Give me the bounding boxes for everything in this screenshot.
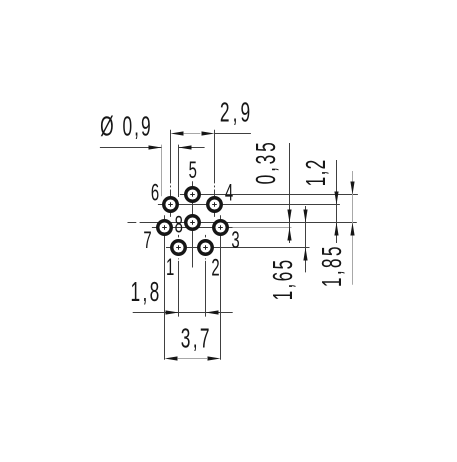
centre line: pin 5/8 vertical axis xyxy=(192,181,194,267)
dimension line 2,9 xyxy=(184,133,201,135)
svg-text:5: 5 xyxy=(189,157,197,183)
svg-text:1,65: 1,65 xyxy=(267,260,298,301)
pin 1 contact hole xyxy=(172,241,186,255)
extension line: pin 7 column xyxy=(164,215,166,360)
svg-text:8: 8 xyxy=(175,212,183,238)
dimension line 0,35 xyxy=(289,143,291,243)
extension line: pin hole left edge (gray) xyxy=(161,145,163,197)
pin 3 centre cross xyxy=(218,227,223,229)
pin 2 contact hole xyxy=(199,241,213,255)
pin 6 centre cross xyxy=(168,204,173,206)
pin 6 contact hole xyxy=(164,198,178,212)
row line: pins 6 and 4 xyxy=(158,204,340,206)
extension line: pin 2 column xyxy=(205,235,207,238)
extension line: pin 4 column xyxy=(214,130,216,184)
svg-text:2: 2 xyxy=(211,255,219,281)
svg-text:3: 3 xyxy=(231,228,239,254)
dimension line diameter 0,9 xyxy=(100,147,162,149)
pin 5 contact hole xyxy=(186,188,200,202)
pin 7 centre cross xyxy=(162,227,167,229)
row line: pin 5 xyxy=(180,194,358,196)
svg-text:3,7: 3,7 xyxy=(181,322,210,353)
pin 5 centre cross xyxy=(190,194,195,196)
pin 8 contact hole xyxy=(186,216,200,230)
extension line: pin hole right edge xyxy=(178,145,180,197)
svg-text:1,2: 1,2 xyxy=(300,160,331,187)
pin 8 centre cross xyxy=(190,222,195,224)
dimension line 1,65 xyxy=(305,206,307,272)
row line: pins 7 and 3 xyxy=(152,227,233,229)
pin 2 centre cross xyxy=(203,247,208,249)
svg-text:7: 7 xyxy=(143,228,151,254)
pin 1 centre cross xyxy=(176,247,181,249)
svg-text:2,9: 2,9 xyxy=(220,96,250,127)
pin 4 centre cross xyxy=(212,204,217,206)
svg-text:1,8: 1,8 xyxy=(130,276,159,307)
svg-text:6: 6 xyxy=(151,180,159,206)
pin 4 contact hole xyxy=(208,198,222,212)
svg-text:4: 4 xyxy=(225,180,233,206)
extension line: pin 1 column xyxy=(178,235,180,238)
dimension line 3,7 xyxy=(178,358,207,360)
extension line: pin 6 column xyxy=(170,130,172,184)
svg-text:1: 1 xyxy=(166,254,174,280)
extension line: pin 3 column xyxy=(220,215,222,360)
svg-text:1,85: 1,85 xyxy=(316,246,347,287)
dimension line 1,8 xyxy=(133,312,233,314)
svg-text:Ø 0,9: Ø 0,9 xyxy=(100,110,151,141)
dimension line 1,2 xyxy=(336,160,338,243)
pin 7 contact hole xyxy=(158,221,172,235)
row line: pins 1 and 2 xyxy=(166,247,310,249)
pin 3 contact hole xyxy=(214,221,228,235)
svg-text:0,35: 0,35 xyxy=(250,142,281,184)
centre line: pin 8 horizontal axis xyxy=(128,222,137,224)
dimension line 1,85 (gray) xyxy=(352,171,354,285)
